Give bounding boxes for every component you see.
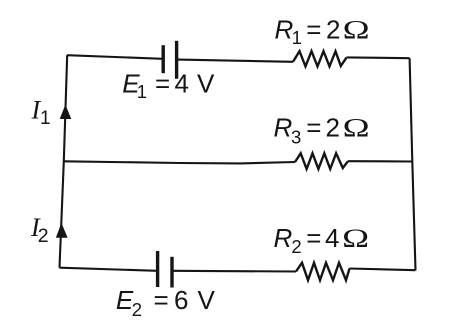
svg-text:=: = [306,113,321,143]
wire left vertical (top corner down to bottom corner) [60,55,68,268]
svg-text:1: 1 [40,108,51,129]
svg-text:2: 2 [132,299,142,320]
svg-text:=: = [155,68,170,98]
svg-text:R: R [274,113,293,143]
svg-text:=: = [306,223,321,253]
svg-text:4: 4 [175,68,189,98]
current arrow I1 [60,105,72,120]
svg-text:4: 4 [325,223,339,253]
wire battery E2 to resistor R2 [174,270,297,273]
svg-text:V: V [197,68,215,98]
battery E2 [158,251,172,288]
wire top-left horizontal (left corner to battery E1) [67,55,163,59]
svg-text:R: R [274,223,293,253]
wire bottom-left horizontal (left corner to battery E2) [60,268,158,271]
svg-text:Ω: Ω [342,224,369,253]
svg-text:Ω: Ω [343,16,370,45]
wire battery E1 to resistor R1 [178,60,293,62]
wire middle horizontal (left junction to resistor R3) [64,161,295,163]
wire resistor R1 to top-right corner [347,56,410,59]
svg-text:=: = [154,285,169,315]
svg-text:1: 1 [137,81,147,102]
svg-text:2: 2 [326,113,340,143]
battery E1 [163,41,176,79]
wire right vertical (top corner to bottom corner) [410,58,416,270]
current arrow I2 [56,223,68,238]
svg-text:6: 6 [174,285,188,315]
svg-text:1: 1 [292,27,302,48]
svg-text:2: 2 [38,225,49,247]
resistor R1 [293,51,347,66]
svg-text:2: 2 [326,15,340,45]
resistor R2 [296,263,350,280]
wire resistor R2 to bottom-right corner [350,269,416,271]
svg-text:2: 2 [291,236,301,257]
svg-text:R: R [275,15,294,45]
resistor R3 [295,153,348,169]
svg-text:V: V [198,285,216,315]
svg-text:3: 3 [291,126,301,147]
svg-text:Ω: Ω [343,114,370,143]
svg-text:=: = [306,15,321,45]
wire resistor R3 to right vertical [348,160,412,162]
